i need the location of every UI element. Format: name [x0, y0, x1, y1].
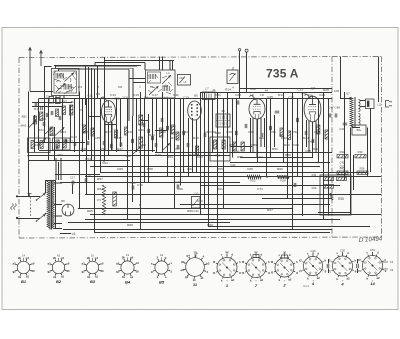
junction J13 [27, 155, 29, 157]
wire vertical V50 [266, 99, 268, 178]
svg-text:C50: C50 [340, 248, 345, 252]
svg-text:C27: C27 [176, 180, 181, 184]
wire vertical V17 [108, 123, 110, 152]
svg-text:R34: R34 [312, 173, 317, 177]
tube base B11 diagram [331, 255, 353, 277]
power transformer T1 core [50, 180, 51, 230]
svg-text:C4: C4 [42, 117, 46, 121]
resistor R2b [56, 109, 59, 117]
wire horizontal H1 [39, 98, 205, 100]
resistor R2 [50, 127, 53, 136]
shield box right bottom [320, 175, 351, 215]
svg-text:a3: a3 [181, 268, 185, 272]
svg-text:C15: C15 [133, 93, 139, 97]
wires above transformer [56, 158, 61, 180]
coil L1 hatch [56, 73, 72, 90]
wire vertical V53 [283, 93, 285, 163]
resistor R1b [34, 116, 37, 124]
svg-text:C3: C3 [78, 85, 82, 89]
svg-text:h: h [239, 260, 241, 264]
svg-text:L9: L9 [250, 93, 254, 97]
wire gram 2 [246, 52, 248, 93]
svg-text:R59: R59 [217, 167, 223, 171]
wire vertical V54 [287, 99, 289, 199]
wire vertical V57 [302, 93, 304, 216]
wire horizontal H3 [240, 88, 332, 90]
ganged switch link [29, 197, 31, 217]
svg-text:R48: R48 [155, 153, 161, 157]
svg-text:1k: 1k [53, 275, 57, 279]
resistor R37 [337, 171, 348, 174]
capacitor C38 [167, 126, 169, 130]
capacitor between B10 B11 [327, 264, 329, 268]
wire vertical V66 [353, 155, 355, 190]
svg-text:C1.7: C1.7 [67, 140, 73, 144]
wire horizontal H5 [32, 102, 72, 104]
tube base B6 diagram [183, 255, 206, 279]
svg-text:C21: C21 [215, 93, 221, 97]
svg-text:C51: C51 [270, 130, 276, 134]
svg-text:C67: C67 [187, 167, 193, 171]
wire vertical V32 [174, 98, 176, 208]
svg-text:44: 44 [265, 89, 269, 93]
junction J15 [148, 176, 150, 178]
wire mains 1 [17, 196, 40, 198]
chassis divider dashed line [331, 57, 333, 238]
wire vertical V67 [367, 128, 369, 178]
wire vertical V47 [250, 118, 252, 152]
resistor R40 [337, 155, 348, 158]
wire transformer top [45, 180, 56, 182]
primary zigzag [47, 181, 50, 228]
svg-text:B3: B3 [90, 279, 96, 284]
svg-text:B8: B8 [61, 199, 65, 203]
resistor R41 [355, 155, 366, 158]
capacitor C22 [204, 133, 206, 137]
wire vertical V16 [104, 57, 106, 161]
svg-text:g2: g2 [12, 269, 16, 273]
wire horizontal H22 [262, 198, 332, 200]
svg-text:C59: C59 [251, 143, 257, 147]
svg-text:1C4: 1C4 [122, 96, 128, 100]
wire vertical V56 [297, 99, 299, 178]
svg-text:2k: 2k [18, 256, 22, 260]
resistor 2 in box A [40, 141, 43, 149]
svg-text:MA1: MA1 [21, 124, 27, 128]
switch arrow S1b [45, 128, 52, 134]
svg-text:R9: R9 [144, 96, 148, 100]
svg-text:C64: C64 [257, 155, 263, 159]
svg-text:Cu 4: Cu 4 [303, 284, 309, 288]
wire cap d [357, 269, 359, 274]
junction J22 [139, 204, 141, 206]
svg-text:g: g [239, 271, 241, 275]
svg-text:g2: g2 [81, 269, 85, 273]
svg-text:R17: R17 [278, 93, 284, 97]
resistor R5 [83, 125, 86, 133]
trimmer arrow 2 in L1 box [65, 73, 74, 82]
capacitor C9 [74, 142, 76, 146]
wire vertical V36 [192, 118, 194, 172]
svg-text:C46: C46 [226, 130, 232, 134]
svg-text:L1: L1 [58, 73, 61, 77]
tone network box [192, 197, 201, 209]
resistor R6 [91, 128, 94, 136]
resistor R4 [70, 105, 73, 115]
svg-text:g: g [268, 271, 270, 275]
svg-text:C29: C29 [319, 93, 325, 97]
wire horizontal H4 [205, 98, 332, 100]
svg-text:R3: R3 [71, 100, 75, 104]
junction J17 [257, 151, 259, 153]
wire vertical V63 [340, 57, 342, 100]
svg-text:R42: R42 [281, 136, 287, 140]
wire vertical V31 [170, 99, 172, 153]
wire vertical V29 [162, 92, 164, 152]
wire vertical V64 [344, 92, 346, 180]
pickup link content [230, 67, 236, 81]
wire vertical V49 [264, 118, 266, 147]
resistor R9 [139, 115, 143, 125]
wire vertical V1 [28, 92, 30, 197]
svg-text:R41: R41 [259, 136, 265, 140]
secondary zigzag [52, 181, 55, 230]
wire vertical V27 [152, 99, 154, 153]
tube base B8 diagram [245, 255, 267, 279]
capacitor C48 [335, 114, 337, 118]
svg-text:C46: C46 [235, 150, 240, 154]
svg-text:R1: R1 [34, 107, 38, 111]
svg-text:C12: C12 [162, 84, 168, 88]
capacitor C49 [343, 123, 348, 125]
svg-text:C51: C51 [370, 248, 375, 252]
svg-text:g: g [325, 269, 327, 273]
svg-text:h: h [355, 258, 357, 262]
output transformer core [354, 97, 355, 127]
wire stub a [140, 120, 149, 122]
svg-text:R11: R11 [173, 93, 179, 97]
svg-text:h: h [296, 260, 298, 264]
svg-text:g4: g4 [130, 256, 134, 260]
svg-text:C57: C57 [174, 147, 180, 151]
svg-text:B5: B5 [194, 94, 198, 98]
svg-text:R66: R66 [187, 209, 193, 213]
svg-text:C23: C23 [235, 93, 241, 97]
wire shield box bottom [318, 212, 351, 214]
grid cap lead B3 [101, 97, 108, 102]
svg-text:30: 30 [31, 269, 35, 273]
svg-text:+: + [226, 279, 228, 283]
wire drops from stack [86, 66, 134, 161]
svg-text:R23: R23 [60, 130, 66, 134]
resistor R33 [324, 177, 334, 181]
svg-text:+: + [312, 279, 314, 283]
svg-text:1: 1 [139, 85, 141, 89]
small boxes below L1 box [49, 97, 54, 104]
tube B5 mixer top view [188, 101, 202, 120]
svg-text:a1: a1 [26, 275, 30, 279]
tube B7 output pentode [304, 96, 321, 122]
capacitor C12 [111, 144, 113, 148]
stubs above right bases [227, 252, 373, 256]
svg-text:R27: R27 [105, 130, 111, 134]
svg-text:+: + [342, 279, 344, 283]
svg-text:L11: L11 [377, 103, 382, 107]
wire C17 down [72, 185, 74, 195]
capacitor C15 [148, 129, 150, 133]
svg-text:R39: R39 [358, 150, 363, 154]
svg-text:R49: R49 [189, 153, 195, 157]
svg-text:a3: a3 [116, 261, 120, 265]
wire horizontal H27 [68, 222, 230, 224]
svg-text:30: 30 [100, 269, 104, 273]
svg-text:a2: a2 [317, 276, 321, 280]
svg-text:s0: s0 [66, 261, 70, 265]
svg-text:s0: s0 [194, 252, 198, 256]
svg-text:R52: R52 [313, 147, 319, 151]
capacitor C47 [329, 114, 331, 118]
svg-text:C13: C13 [110, 93, 116, 97]
wire vertical V59 [312, 122, 314, 158]
svg-text:30: 30 [66, 269, 70, 273]
junction J4 [174, 166, 176, 168]
mains terminal 2 [16, 217, 18, 219]
wire vertical V68 [370, 108, 372, 172]
svg-text:R35: R35 [338, 197, 344, 201]
wave switch arrow [29, 121, 36, 128]
junction J18 [317, 162, 319, 164]
svg-text:R36: R36 [193, 136, 199, 140]
svg-text:R50: R50 [229, 143, 235, 147]
svg-text:S1: S1 [60, 84, 64, 88]
svg-text:f1: f1 [213, 271, 216, 275]
gram terminal G2 [245, 49, 248, 52]
wire horizontal H26 [85, 219, 340, 221]
wire vertical V51 [270, 99, 272, 158]
wire vertical V28 [156, 99, 158, 153]
svg-text:f1: f1 [299, 269, 302, 273]
svg-text:f2: f2 [271, 260, 274, 264]
svg-text:R25: R25 [83, 130, 89, 134]
wire vertical V9 [74, 99, 76, 153]
svg-text:C32: C32 [231, 163, 236, 167]
junction J3 [139, 151, 141, 153]
svg-text:C63: C63 [197, 155, 203, 159]
junction J1 [94, 98, 96, 100]
svg-text:C58: C58 [210, 130, 216, 134]
tube base B1 diagram [15, 259, 31, 275]
svg-text:R65: R65 [87, 209, 93, 213]
resistor group box B [53, 138, 71, 150]
wire stub d [89, 116, 101, 118]
resistor in box B [56, 140, 59, 148]
resistor R12 [172, 125, 175, 134]
svg-text:g4: g4 [186, 254, 190, 258]
wire C18 down [86, 182, 88, 194]
oscillator coil box [146, 70, 176, 98]
junction J6 [217, 151, 219, 153]
wire vertical V30 [167, 99, 169, 178]
wire cap b [328, 269, 330, 274]
wire vertical V25 [144, 99, 146, 183]
svg-text:a2: a2 [231, 278, 235, 282]
antenna terminal A2 arrow [40, 51, 43, 66]
svg-text:R69: R69 [207, 223, 213, 227]
wire vertical V18 [111, 122, 113, 150]
svg-text:R16: R16 [216, 154, 221, 158]
resistor R18 [241, 142, 244, 151]
svg-text:a: a [97, 85, 99, 89]
svg-text:R55: R55 [237, 155, 243, 159]
wire horizontal H15 [90, 166, 320, 168]
wire vertical V60 [318, 99, 320, 163]
svg-text:R28: R28 [280, 179, 286, 183]
tube B3 RF pentode [102, 101, 116, 123]
svg-text:2k: 2k [53, 256, 57, 260]
wire vertical V41 [212, 99, 214, 152]
wire horizontal H7 [35, 142, 85, 144]
svg-text:C35: C35 [94, 136, 100, 140]
svg-text:1k: 1k [193, 278, 197, 282]
capacitor C19 [177, 145, 179, 149]
switch arrow S2a [133, 147, 141, 155]
svg-text:g4: g4 [61, 256, 65, 260]
capacitor C11 [103, 141, 105, 145]
wire mains 2 [17, 218, 40, 220]
svg-text:g: g [165, 256, 167, 260]
wire horizontal H14 [230, 162, 330, 164]
switch arrow S1a [39, 139, 46, 145]
wire vertical V5 [48, 99, 50, 162]
junction J19 [103, 160, 105, 162]
wire horizontal H21 [85, 194, 382, 196]
capacitor C16 [155, 143, 157, 147]
capacitor C2 [35, 103, 37, 107]
wire speaker bottom [360, 106, 366, 108]
junction J21 [344, 176, 346, 178]
wire vertical V61 [323, 93, 325, 220]
svg-text:C39: C39 [138, 128, 144, 132]
junction J23 [217, 214, 219, 216]
svg-text:R31: R31 [149, 133, 155, 137]
wire vertical V13 [91, 150, 93, 161]
svg-text:a3: a3 [81, 262, 85, 266]
wire out trafo bottom [352, 127, 361, 129]
svg-text:C17: C17 [70, 176, 76, 180]
svg-text:R14: R14 [225, 88, 231, 92]
capacitor C10 [87, 141, 89, 145]
svg-text:L6: L6 [72, 232, 76, 236]
wire vertical V55 [292, 93, 294, 230]
svg-text:C69: C69 [177, 187, 183, 191]
wire horizontal H24 [78, 208, 293, 210]
wire horizontal H12 [240, 157, 313, 159]
svg-text:B2: B2 [56, 279, 62, 284]
svg-text:R58: R58 [147, 167, 153, 171]
wire vertical V69 [378, 57, 380, 102]
resistor R20 [288, 131, 291, 140]
resistor R21 [317, 125, 320, 134]
wire antenna to coil box [30, 91, 53, 93]
wire horizontal H25 [90, 214, 382, 216]
capacitor C39b [161, 118, 163, 122]
svg-text:C17: C17 [152, 93, 158, 97]
wire stub c [104, 124, 116, 126]
mains switch S2 [37, 215, 45, 221]
grid cap lead B7 [305, 95, 312, 100]
svg-text:C47 C48: C47 C48 [328, 106, 340, 110]
svg-text:C70: C70 [137, 183, 143, 187]
svg-text:h: h [268, 260, 270, 264]
capacitor C17 [72, 181, 74, 185]
svg-text:a3: a3 [12, 262, 16, 266]
svg-text:f1: f1 [358, 269, 361, 273]
trimmer in padder box [180, 77, 186, 84]
wire vertical V10 [79, 92, 81, 209]
wire gram 1 [239, 51, 241, 99]
capacitor C35 [312, 139, 314, 143]
svg-text:d: d [260, 252, 262, 256]
svg-text:1k: 1k [18, 275, 22, 279]
capacitor C25 [261, 133, 263, 137]
capacitor C34 [305, 131, 307, 135]
tube base B3 diagram [84, 259, 100, 275]
svg-text:C9: C9 [79, 108, 83, 112]
wire vertical V3 [38, 99, 40, 151]
svg-text:C25: C25 [267, 95, 273, 99]
antenna terminal A1 arrow [29, 48, 32, 92]
bleeder resistor zigzag [102, 185, 105, 215]
svg-text:L7: L7 [205, 87, 209, 91]
svg-text:R29: R29 [312, 186, 317, 190]
wire horizontal H9 [39, 150, 155, 152]
wire horizontal H11 [28, 155, 230, 157]
resistor R13 [196, 146, 199, 155]
transformer taps [54, 183, 62, 229]
svg-text:2C2: 2C2 [114, 97, 120, 101]
wire cap a [328, 259, 330, 264]
svg-text:g: g [151, 269, 153, 273]
svg-text:C41: C41 [160, 130, 166, 134]
wire horizontal H23 [180, 204, 330, 206]
capacitor C23 [235, 131, 237, 135]
svg-text:30: 30 [136, 269, 140, 273]
svg-text:C52: C52 [292, 130, 298, 134]
svg-text:g: g [296, 270, 298, 274]
svg-text:d: d [317, 251, 319, 255]
junction J5 [204, 98, 206, 100]
wire stack from L1 box [54, 66, 141, 72]
svg-text:f1: f1 [271, 271, 274, 275]
capacitor C37 [152, 136, 154, 140]
wire vertical V48 [257, 119, 259, 163]
svg-text:L10: L10 [194, 192, 199, 196]
svg-text:a1: a1 [130, 275, 134, 279]
resistor R3 [62, 106, 65, 115]
svg-text:L3: L3 [151, 85, 154, 89]
svg-text:a2: a2 [260, 278, 264, 282]
svg-text:R60: R60 [277, 167, 283, 171]
wire vertical V33 [180, 99, 182, 186]
wire vertical V58 [306, 120, 308, 147]
svg-text:41: 41 [212, 88, 216, 92]
svg-text:R67: R67 [267, 208, 273, 212]
capacitor C33 [294, 183, 296, 187]
resistor R30 [113, 192, 117, 206]
svg-text:s0: s0 [136, 261, 140, 265]
resistor R38 [357, 171, 368, 174]
svg-text:R26: R26 [284, 143, 290, 147]
